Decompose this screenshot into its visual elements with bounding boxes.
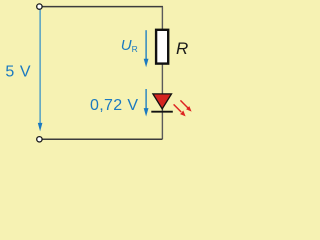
label 0,72 V [90, 97, 138, 114]
voltage arrow U_R [144, 30, 149, 67]
wire right [161, 7, 163, 140]
terminal top-left [37, 4, 42, 9]
terminal bottom-left [37, 137, 42, 142]
svg-text:R: R [132, 44, 138, 54]
wire bottom [42, 138, 162, 140]
label 5 V [5, 64, 31, 81]
svg-text:5 V: 5 V [5, 64, 31, 81]
svg-text:R: R [176, 39, 188, 58]
label R [176, 39, 188, 58]
LED D1 [151, 94, 173, 112]
label U_R [121, 37, 138, 54]
source voltage arrow 5 V [38, 10, 43, 132]
svg-text:U: U [121, 37, 132, 54]
voltage arrow 0,72 V [144, 89, 149, 117]
svg-text:0,72 V: 0,72 V [90, 97, 138, 114]
LED light emission arrows [174, 100, 192, 116]
wire top [42, 6, 163, 8]
resistor R [156, 30, 168, 64]
